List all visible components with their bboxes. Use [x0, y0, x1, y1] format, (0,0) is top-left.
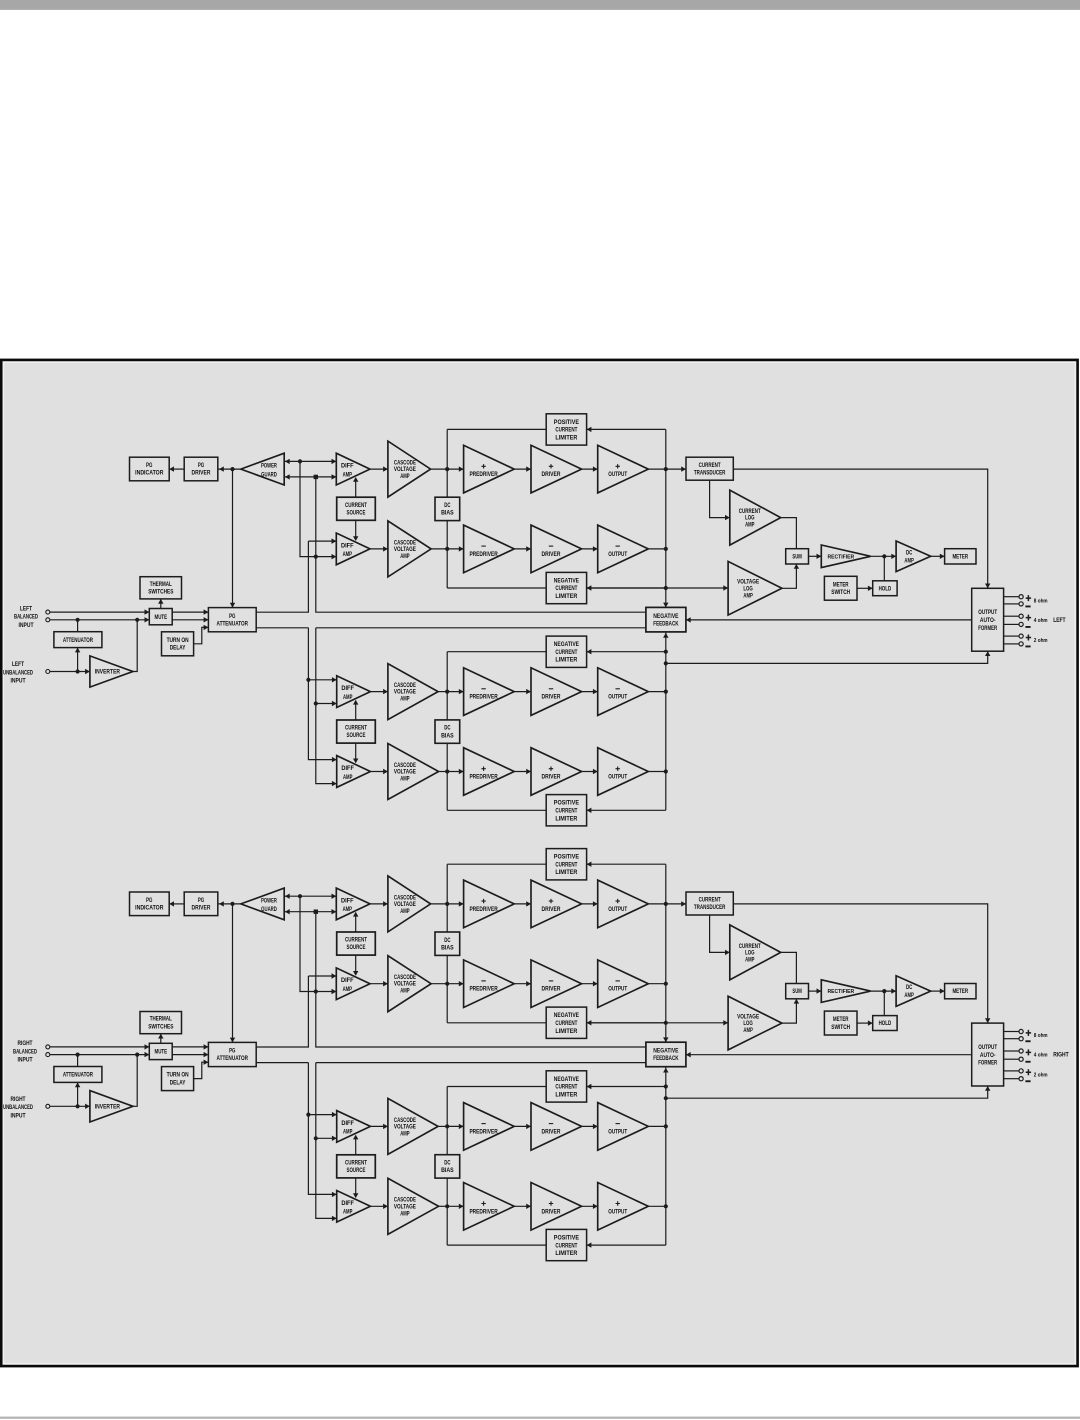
amp OUTPUT − (q1- RIGHT) — [598, 960, 649, 1008]
svg-text:CURRENT: CURRENT — [555, 1084, 577, 1091]
junction D (q2 upper+, LEFT) — [306, 678, 310, 682]
wire sum to rectifier (LEFT) — [809, 555, 822, 557]
amp DIFF AMP (q2 upper, LEFT) — [337, 676, 371, 708]
svg-text:PREDRIVER: PREDRIVER — [469, 906, 497, 913]
svg-text:DRIVER: DRIVER — [192, 470, 211, 477]
amp DRIVER − (q2- LEFT) — [531, 668, 582, 716]
junction inverter tap (RIGHT) — [135, 1053, 139, 1057]
wire unbalanced to attenuator (LEFT) — [77, 648, 79, 672]
svg-text:DC: DC — [444, 502, 450, 509]
box NEGATIVE CURRENT LIMITER (q1, LEFT) — [546, 572, 586, 603]
wire mute to pg attenuator 1 (LEFT) — [172, 611, 208, 613]
svg-text:NEGATIVE: NEGATIVE — [554, 1012, 580, 1019]
svg-text:PREDRIVER: PREDRIVER — [469, 774, 497, 781]
svg-text:DIFF: DIFF — [341, 897, 354, 904]
amp PREDRIVER + (q2+ LEFT) — [464, 748, 515, 796]
wire cascode out (q1+ RIGHT) — [431, 903, 448, 905]
terminal output + (LEFT) — [1019, 595, 1023, 599]
wire vertical C pg-att to q1 (RIGHT) — [256, 976, 308, 1047]
svg-text:BIAS: BIAS — [441, 510, 454, 517]
wire current source down (q2, LEFT) — [355, 743, 357, 762]
svg-text:DRIVER: DRIVER — [542, 774, 561, 781]
svg-text:INPUT: INPUT — [18, 1058, 33, 1064]
svg-text:AMP: AMP — [904, 557, 914, 564]
junction dc-bias rail (q1- RIGHT) — [445, 982, 449, 986]
svg-text:CURRENT: CURRENT — [555, 808, 577, 815]
svg-text:DIFF: DIFF — [341, 1200, 354, 1207]
svg-text:GUARD: GUARD — [261, 906, 277, 913]
svg-text:CURRENT: CURRENT — [555, 585, 577, 592]
svg-text:ATTENUATOR: ATTENUATOR — [217, 1055, 249, 1062]
polarity + (LEFT) — [1026, 615, 1031, 621]
wire PREDRIVER-DRIVER (q2- LEFT) — [514, 691, 531, 693]
wire current log amp to sum (LEFT) — [781, 518, 797, 549]
svg-text:2 ohm: 2 ohm — [1034, 638, 1048, 644]
svg-text:SUM: SUM — [792, 988, 802, 995]
amp OUTPUT + (q1+ RIGHT) — [598, 880, 649, 928]
svg-text:BIAS: BIAS — [441, 944, 454, 951]
amp CURRENT LOG AMP (LEFT) — [730, 490, 781, 545]
svg-text:METER: METER — [952, 988, 968, 995]
wire rail to POSITIVE limiter (q1, LEFT) — [587, 428, 666, 430]
wire turn-on delay to pg attenuator (LEFT) — [194, 627, 209, 643]
polarity + (RIGHT) — [1026, 1030, 1031, 1036]
wire output to rail (q2- LEFT) — [648, 691, 666, 693]
svg-text:INVERTER: INVERTER — [95, 1103, 120, 1110]
amp DIFF AMP (q1 lower, RIGHT) — [336, 968, 370, 1000]
wire rail to autoformer bottom (RIGHT) — [666, 1086, 988, 1098]
wire inverter out (RIGHT) — [133, 1055, 137, 1107]
wire rectifier to dc amp (LEFT) — [871, 555, 896, 557]
junction A top (LEFT) — [298, 459, 302, 463]
svg-text:DC: DC — [906, 984, 912, 991]
amp DIFF AMP (q1 upper, RIGHT) — [336, 888, 370, 920]
svg-text:OUTPUT: OUTPUT — [608, 471, 627, 478]
svg-text:GUARD: GUARD — [261, 471, 277, 478]
svg-text:LIMITER: LIMITER — [555, 1028, 577, 1035]
svg-text:POSITIVE: POSITIVE — [554, 800, 580, 807]
svg-text:DIFF: DIFF — [341, 977, 354, 984]
polarity - (RIGHT) — [1025, 1061, 1030, 1063]
junction A/B (RIGHT) — [314, 989, 318, 993]
wire rail to NEGATIVE limiter (q2, RIGHT) — [587, 1086, 666, 1088]
svg-text:VOLTAGE: VOLTAGE — [394, 769, 416, 776]
svg-text:LIMITER: LIMITER — [555, 869, 577, 876]
svg-text:OUTPUT: OUTPUT — [978, 1044, 997, 1051]
svg-text:LIMITER: LIMITER — [555, 815, 577, 822]
svg-text:PREDRIVER: PREDRIVER — [469, 1128, 497, 1135]
junction unbalanced (RIGHT) — [76, 1104, 80, 1108]
wire rail to NEGATIVE limiter (q2, LEFT) — [587, 651, 666, 653]
box POSITIVE CURRENT LIMITER (q1, LEFT) — [546, 414, 586, 445]
wire vertical D (RIGHT) — [308, 1063, 336, 1195]
box NEGATIVE CURRENT LIMITER (q1, RIGHT) — [546, 1007, 586, 1038]
junction dc-bias rail (q2- RIGHT) — [445, 1124, 449, 1128]
junction dc-bias rail (q2- LEFT) — [445, 690, 449, 694]
box DC BIAS (q1, RIGHT) — [435, 932, 460, 955]
terminal RIGHT balanced input - — [46, 1053, 50, 1057]
svg-text:LOG: LOG — [743, 1020, 752, 1027]
junction pg sense (RIGHT) — [230, 902, 234, 906]
wire power guard to pg driver (RIGHT) — [218, 903, 241, 905]
junction pg sense (LEFT) — [230, 467, 234, 471]
svg-text:POSITIVE: POSITIVE — [554, 854, 580, 861]
svg-text:OUTPUT: OUTPUT — [608, 1208, 627, 1215]
amp DIFF AMP (q2 upper, RIGHT) — [337, 1111, 371, 1143]
box THERMAL SWITCHES (RIGHT) — [140, 1012, 182, 1034]
svg-text:4 ohm: 4 ohm — [1034, 618, 1048, 624]
wire balanced+ to mute (RIGHT) — [50, 1046, 149, 1048]
box DC BIAS (q2, RIGHT) — [435, 1155, 460, 1178]
terminal LEFT balanced input + — [46, 610, 50, 614]
svg-text:SWITCH: SWITCH — [831, 589, 850, 596]
wire vertical B to negative feedback (LEFT) — [316, 477, 646, 612]
box CURRENT SOURCE (q2, LEFT) — [337, 720, 376, 743]
svg-text:DRIVER: DRIVER — [542, 551, 561, 558]
wire diff amp to cascode y=549 — [370, 548, 388, 550]
box MUTE (LEFT) — [149, 609, 172, 625]
svg-text:INPUT: INPUT — [11, 1113, 26, 1119]
box HOLD (RIGHT) — [873, 1016, 897, 1031]
junction B top (square) (LEFT) — [314, 475, 318, 479]
svg-text:INVERTER: INVERTER — [95, 669, 120, 676]
junction unbalanced (LEFT) — [76, 669, 80, 673]
box METER (RIGHT) — [945, 984, 976, 999]
svg-text:BIAS: BIAS — [441, 1167, 454, 1174]
wire cascode out (q2- LEFT) — [438, 691, 447, 693]
amp DRIVER − (q1- RIGHT) — [531, 960, 582, 1008]
amp DIFF AMP (q1 lower, LEFT) — [336, 533, 370, 565]
terminal output + (RIGHT) — [1019, 1029, 1023, 1033]
svg-text:SOURCE: SOURCE — [347, 732, 366, 739]
svg-text:AMP: AMP — [343, 551, 353, 558]
svg-text:DRIVER: DRIVER — [542, 1208, 561, 1215]
wire output rail (q2, RIGHT) — [665, 1067, 667, 1245]
svg-text:ATTENUATOR: ATTENUATOR — [217, 620, 249, 627]
wire output tap 2 (LEFT) — [1004, 603, 1019, 605]
wire rail to NEGATIVE limiter (q1, RIGHT) — [587, 1022, 666, 1024]
polarity - (LEFT) — [1025, 626, 1030, 628]
svg-text:DIFF: DIFF — [341, 765, 354, 772]
svg-text:VOLTAGE: VOLTAGE — [394, 901, 416, 908]
box POSITIVE CURRENT LIMITER (q2, RIGHT) — [546, 1229, 586, 1260]
wire diff amp to cascode y=692 — [370, 691, 388, 693]
svg-text:RIGHT: RIGHT — [18, 1041, 33, 1047]
terminal output - (LEFT) — [1019, 642, 1023, 646]
box NEGATIVE CURRENT LIMITER (q2, LEFT) — [546, 636, 586, 667]
svg-text:CURRENT: CURRENT — [555, 861, 577, 868]
amp VOLTAGE LOG AMP (LEFT) — [728, 561, 782, 615]
svg-text:DC: DC — [444, 1160, 450, 1167]
wire output tap 1 (LEFT) — [1004, 596, 1019, 598]
wire DRIVER-OUTPUT (q1- LEFT) — [582, 548, 598, 550]
svg-text:PG: PG — [198, 462, 204, 469]
wire to diff amp q2 lower input (RIGHT) — [316, 1137, 337, 1139]
svg-text:HOLD: HOLD — [879, 1020, 892, 1027]
wire rail to NEGATIVE limiter (q1, LEFT) — [587, 587, 666, 589]
wire current source up (q1, RIGHT) — [355, 913, 357, 932]
amp OUTPUT − (q2- RIGHT) — [598, 1103, 649, 1151]
svg-text:4 ohm: 4 ohm — [1034, 1053, 1048, 1059]
junction attenuator tap (RIGHT) — [76, 1053, 80, 1057]
wire rail to current transducer (RIGHT) — [666, 903, 686, 905]
box DC BIAS (q2, LEFT) — [435, 720, 460, 743]
wire to diff amp q1 lower - (RIGHT) — [316, 991, 337, 993]
wire current source up (q2, LEFT) — [355, 701, 357, 720]
wire output rail (q2, LEFT) — [665, 632, 667, 810]
svg-text:OUTPUT: OUTPUT — [608, 694, 627, 701]
junction hold tap (RIGHT) — [882, 989, 886, 993]
polarity - (RIGHT) — [1025, 1080, 1030, 1082]
svg-text:POWER: POWER — [261, 463, 277, 470]
wire to voltage log amp (LEFT) — [587, 587, 729, 589]
amp VOLTAGE LOG AMP (RIGHT) — [728, 996, 782, 1050]
wire output to rail (q1- RIGHT) — [648, 983, 666, 985]
amp DRIVER − (q2- RIGHT) — [531, 1103, 582, 1151]
svg-text:SWITCHES: SWITCHES — [148, 589, 174, 596]
wire to diff amp q1 lower + (RIGHT) — [308, 975, 336, 977]
junction E (q2 upper-, RIGHT) — [314, 1136, 318, 1140]
amp DRIVER − (q1- LEFT) — [531, 525, 582, 573]
box POSITIVE CURRENT LIMITER (q1, RIGHT) — [546, 849, 586, 880]
svg-text:PREDRIVER: PREDRIVER — [469, 551, 497, 558]
junction rail/neg limiter (q2, RIGHT) — [664, 1084, 668, 1088]
svg-text:CURRENT: CURRENT — [555, 649, 577, 656]
svg-text:NEGATIVE: NEGATIVE — [554, 641, 580, 648]
terminal output - (LEFT) — [1019, 602, 1023, 606]
svg-text:FEEDBACK: FEEDBACK — [653, 620, 678, 627]
svg-text:PG: PG — [229, 613, 235, 620]
wire DRIVER-OUTPUT (q1+ RIGHT) — [582, 903, 598, 905]
svg-text:TRANSDUCER: TRANSDUCER — [694, 904, 726, 911]
svg-text:VOLTAGE: VOLTAGE — [394, 981, 416, 988]
junction D (q2 upper+, RIGHT) — [306, 1113, 310, 1117]
svg-text:POWER: POWER — [261, 897, 277, 904]
wire sum to rectifier (RIGHT) — [809, 990, 822, 992]
svg-text:DRIVER: DRIVER — [542, 986, 561, 993]
wire current source down (q1, RIGHT) — [355, 955, 357, 975]
wire vertical B to negative feedback (RIGHT) — [316, 912, 646, 1047]
amp POWER GUARD (LEFT) — [241, 453, 284, 485]
svg-text:OUTPUT: OUTPUT — [608, 774, 627, 781]
amp POWER GUARD (RIGHT) — [241, 888, 284, 920]
box PG ATTENUATOR (LEFT) — [208, 608, 256, 632]
amp DC AMP (LEFT) — [896, 541, 931, 572]
svg-text:AUTO-: AUTO- — [980, 617, 996, 624]
junction A top (RIGHT) — [298, 894, 302, 898]
wire to diff amp q1 lower - (LEFT) — [316, 556, 337, 558]
amp DRIVER + (q1+ LEFT) — [531, 445, 582, 493]
svg-text:2 ohm: 2 ohm — [1034, 1073, 1048, 1079]
wire to predriver (q1+ LEFT) — [447, 468, 463, 470]
wire mute to pg attenuator 1 (RIGHT) — [172, 1046, 208, 1048]
svg-text:AMP: AMP — [400, 696, 410, 703]
box NEGATIVE CURRENT LIMITER (q2, RIGHT) — [546, 1071, 586, 1102]
box PG DRIVER (LEFT) — [184, 457, 218, 481]
wire diff amp to cascode y=1206 — [370, 1205, 388, 1207]
wire dc-rail to POSITIVE limiter (q2, RIGHT) — [447, 1244, 546, 1246]
amp CURRENT LOG AMP (RIGHT) — [730, 925, 781, 980]
svg-text:AMP: AMP — [343, 774, 353, 781]
svg-text:INDICATOR: INDICATOR — [135, 470, 163, 477]
box POSITIVE CURRENT LIMITER (q2, LEFT) — [546, 795, 586, 826]
wire output tap 3 (LEFT) — [1004, 615, 1019, 617]
box THERMAL SWITCHES (LEFT) — [140, 577, 182, 599]
junction rail/neg limiter (q2, LEFT) — [664, 650, 668, 654]
wire balanced- to mute (RIGHT) — [50, 1054, 149, 1056]
svg-text:OUTPUT: OUTPUT — [978, 609, 997, 616]
svg-text:LIMITER: LIMITER — [555, 1092, 577, 1099]
wire pg sense down to pg attenuator (LEFT) — [232, 469, 234, 607]
wire turn-on delay to pg attenuator (RIGHT) — [194, 1062, 209, 1078]
svg-text:LOG: LOG — [745, 515, 754, 522]
box TURN ON DELAY (RIGHT) — [162, 1067, 194, 1091]
amp DRIVER + (q2+ LEFT) — [531, 748, 582, 796]
wire to predriver (q2+ LEFT) — [447, 771, 463, 773]
amp DRIVER + (q2+ RIGHT) — [531, 1183, 582, 1231]
svg-text:AUTO-: AUTO- — [980, 1052, 996, 1059]
wire to predriver (q1- RIGHT) — [447, 983, 463, 985]
cascode voltage amp (q2+ LEFT) — [388, 744, 439, 800]
svg-text:DRIVER: DRIVER — [192, 905, 211, 912]
wire pg attenuator lower out (LEFT) — [256, 627, 308, 629]
wire output tap 3 (RIGHT) — [1004, 1050, 1019, 1052]
box PG ATTENUATOR (RIGHT) — [208, 1042, 256, 1066]
amp PREDRIVER − (q2- LEFT) — [464, 668, 515, 716]
svg-text:VOLTAGE: VOLTAGE — [394, 689, 416, 696]
wire diff amp to cascode y=904 — [370, 903, 388, 905]
junction inverter tap (LEFT) — [135, 618, 139, 622]
terminal output + (RIGHT) — [1019, 1049, 1023, 1053]
wire transducer to current log amp (LEFT) — [710, 480, 730, 517]
svg-text:VOLTAGE: VOLTAGE — [394, 546, 416, 553]
wire power guard / diff amp lower (RIGHT) — [284, 911, 336, 913]
svg-text:OUTPUT: OUTPUT — [608, 551, 627, 558]
svg-text:DRIVER: DRIVER — [542, 906, 561, 913]
box TURN ON DELAY (LEFT) — [162, 632, 194, 656]
box CURRENT SOURCE (q2, RIGHT) — [337, 1155, 376, 1178]
wire dc-rail to POSITIVE limiter (q1, RIGHT) — [447, 863, 546, 865]
svg-text:OUTPUT: OUTPUT — [608, 1128, 627, 1135]
terminal output + (LEFT) — [1019, 614, 1023, 618]
wire rectifier to dc amp (RIGHT) — [871, 990, 896, 992]
wire tap to attenuator (RIGHT) — [77, 1055, 79, 1067]
svg-text:VOLTAGE: VOLTAGE — [394, 466, 416, 473]
amp RECTIFIER (RIGHT) — [821, 980, 870, 1003]
wire vertical A (LEFT) — [300, 461, 316, 556]
polarity + (LEFT) — [1026, 595, 1031, 601]
svg-text:ATTENUATOR: ATTENUATOR — [63, 637, 93, 644]
svg-text:RECTIFIER: RECTIFIER — [827, 989, 854, 995]
svg-text:8 ohm: 8 ohm — [1034, 1033, 1048, 1039]
wire to predriver (q2- RIGHT) — [447, 1125, 463, 1127]
wire dc-rail to NEGATIVE limiter (q1, RIGHT) — [447, 1022, 546, 1024]
amp RECTIFIER (LEFT) — [821, 545, 870, 568]
svg-text:NEGATIVE: NEGATIVE — [653, 1048, 679, 1055]
junction output rail (q1+ LEFT) — [664, 467, 668, 471]
wire unbalanced to inverter (LEFT) — [50, 671, 90, 673]
wire output to rail (q1+ RIGHT) — [648, 903, 666, 905]
bottom gray rule — [0, 1417, 1080, 1419]
wire to predriver (q1- LEFT) — [447, 548, 463, 550]
cascode voltage amp (q1- RIGHT) — [388, 956, 431, 1012]
svg-text:LIMITER: LIMITER — [555, 1250, 577, 1257]
cascode voltage amp (q1+ RIGHT) — [388, 876, 431, 932]
svg-text:CURRENT: CURRENT — [555, 427, 577, 434]
box DC BIAS (q1, LEFT) — [435, 497, 460, 520]
svg-text:CURRENT: CURRENT — [345, 502, 367, 509]
wire output to rail (q1+ LEFT) — [648, 468, 666, 470]
wire output rail (q1, LEFT) — [665, 429, 667, 607]
svg-text:AMP: AMP — [400, 553, 410, 560]
svg-text:PG: PG — [198, 897, 204, 904]
wire vertical E (LEFT) — [316, 628, 337, 784]
wire PREDRIVER-DRIVER (q1+ RIGHT) — [514, 903, 531, 905]
svg-text:HOLD: HOLD — [879, 585, 892, 592]
junction output rail (q2- RIGHT) — [664, 1124, 668, 1128]
svg-text:POSITIVE: POSITIVE — [554, 419, 580, 426]
terminal output - (RIGHT) — [1019, 1037, 1023, 1041]
wire voltage log amp to sum (LEFT) — [782, 564, 797, 588]
svg-text:OUTPUT: OUTPUT — [608, 906, 627, 913]
wire PREDRIVER-DRIVER (q2+ LEFT) — [514, 771, 531, 773]
wire pg driver to indicator (LEFT) — [169, 468, 184, 470]
svg-text:METER: METER — [952, 554, 968, 561]
svg-text:AMP: AMP — [743, 1027, 753, 1034]
terminal output + (LEFT) — [1019, 634, 1023, 638]
box ATTENUATOR (RIGHT) — [54, 1067, 102, 1083]
wire output to rail (q2+ LEFT) — [648, 771, 666, 773]
svg-text:METER: METER — [833, 581, 849, 588]
wire rail to autoformer bottom (LEFT) — [666, 651, 988, 663]
wire tap to attenuator (LEFT) — [77, 620, 79, 632]
wire output tap 5 (LEFT) — [1004, 635, 1019, 637]
box METER (LEFT) — [945, 549, 976, 564]
box CURRENT SOURCE (q1, LEFT) — [337, 497, 376, 520]
junction output rail (q2+ LEFT) — [664, 769, 668, 773]
svg-text:UNBALANCED: UNBALANCED — [3, 670, 33, 676]
svg-text:MUTE: MUTE — [155, 1049, 168, 1056]
svg-text:FORMER: FORMER — [978, 625, 997, 632]
wire rail to POSITIVE limiter (q2, RIGHT) — [587, 1244, 666, 1246]
junction output rail (q2- LEFT) — [664, 690, 668, 694]
amp PREDRIVER + (q1+ LEFT) — [464, 445, 515, 493]
svg-text:VOLTAGE: VOLTAGE — [394, 1123, 416, 1130]
svg-text:TURN ON: TURN ON — [167, 637, 189, 644]
svg-text:THERMAL: THERMAL — [150, 581, 172, 588]
amp DIFF AMP (q1 upper, LEFT) — [336, 453, 370, 485]
junction A/B (LEFT) — [314, 555, 318, 559]
svg-text:DIFF: DIFF — [341, 685, 354, 692]
svg-text:DRIVER: DRIVER — [542, 1128, 561, 1135]
wire output to rail (q1- LEFT) — [648, 548, 666, 550]
wire cascode out (q2+ RIGHT) — [439, 1205, 448, 1207]
svg-text:NEGATIVE: NEGATIVE — [554, 1076, 580, 1083]
wire to diff amp q2 upper (LEFT) — [308, 679, 336, 681]
cascode voltage amp (q2+ RIGHT) — [388, 1178, 439, 1234]
wire output tap 6 (LEFT) — [1004, 643, 1019, 645]
svg-text:LEFT: LEFT — [20, 606, 32, 612]
wire DRIVER-OUTPUT (q1+ LEFT) — [582, 468, 598, 470]
svg-text:SOURCE: SOURCE — [347, 944, 366, 951]
wire to voltage log amp (RIGHT) — [587, 1022, 729, 1024]
wire DRIVER-OUTPUT (q2- RIGHT) — [582, 1125, 598, 1127]
wire output to rail (q2- RIGHT) — [648, 1125, 666, 1127]
wire dc-rail to NEGATIVE limiter (q2, LEFT) — [447, 651, 546, 653]
svg-text:CURRENT: CURRENT — [345, 725, 367, 732]
wire diff amp to cascode y=469 — [370, 468, 388, 470]
svg-text:AMP: AMP — [343, 694, 353, 701]
